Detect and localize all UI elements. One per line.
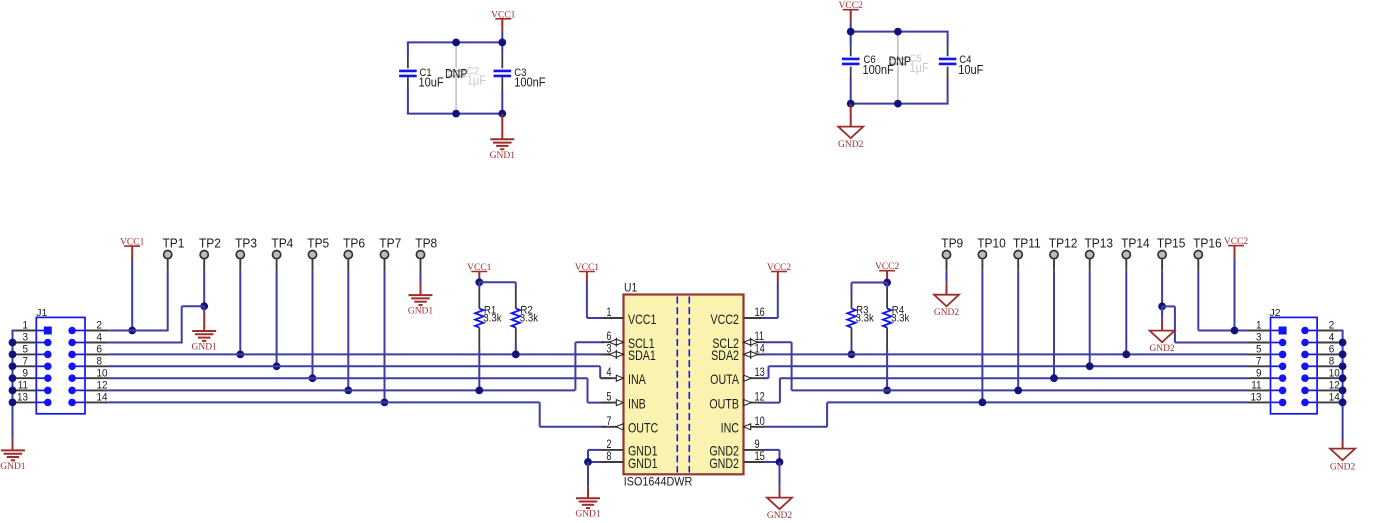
svg-text:ISO1644DWR: ISO1644DWR [624, 476, 692, 488]
svg-text:3.3k: 3.3k [483, 313, 502, 325]
capacitor C3 [494, 70, 512, 73]
pin J1.2 lead [72, 330, 85, 332]
pin J1.1 stub [17, 330, 37, 332]
svg-text:GND2: GND2 [1330, 463, 1356, 473]
wire U1 pin9 to GND2 [763, 449, 780, 451]
wire J1 ground bus [12, 331, 14, 440]
node U1 GND2 pins [776, 458, 784, 466]
node R4/SCL2 [883, 387, 891, 395]
wire J2.6 to ground bus [1338, 353, 1344, 355]
pin TP11 stub [1017, 259, 1019, 271]
node VCC1/row2 [128, 327, 136, 335]
pin J2.2 stub [1317, 330, 1338, 332]
wire R4 to SCL2 row [886, 349, 888, 390]
pin J1.2 stub [85, 330, 108, 332]
svg-text:TP14: TP14 [1121, 236, 1150, 250]
pin J1.11 [44, 387, 52, 395]
pin J2.13 [1279, 399, 1287, 407]
wire into OUTC pin [540, 426, 606, 428]
wire TP2 down to junction [203, 271, 205, 307]
pin J2.14 [1301, 399, 1309, 407]
svg-text:VCC1: VCC1 [628, 312, 657, 328]
node bus J1.3 [9, 339, 17, 347]
svg-text:GND2: GND2 [838, 140, 864, 150]
wire into INA pin [600, 377, 610, 379]
wire VCC2 to pin16 [777, 284, 779, 318]
wire top rail C1-C3 [407, 41, 503, 43]
wire row14 jog down [539, 402, 541, 426]
wire row4 J1.4 [108, 342, 183, 344]
wire TP9 down [946, 271, 948, 283]
pin J1.2 [68, 327, 76, 335]
pin J2.1 stub [1249, 330, 1271, 332]
svg-text:TP9: TP9 [941, 236, 963, 250]
testpoint TP6 [344, 251, 352, 259]
pin J2.11 stub [1249, 389, 1271, 391]
pin J2.9 [1279, 374, 1287, 382]
pin J1.5 [44, 351, 52, 359]
wire row10 (INB net) J1.10 to jog [108, 377, 587, 379]
pin J1.8 [68, 363, 76, 371]
testpoint TP15 [1158, 251, 1166, 259]
pin J2.12 lead [1305, 389, 1317, 391]
wire TP12 down to row10R [1053, 271, 1055, 379]
node U1 GND1 pins [584, 458, 592, 466]
node TP5/row10 [309, 374, 317, 382]
pin TP9 stub [946, 259, 948, 271]
node R2/row6 [512, 351, 520, 359]
svg-text:TP11: TP11 [1013, 236, 1041, 250]
wire INC jog up [826, 402, 828, 426]
ground GND1 (U1) [587, 462, 589, 487]
pin J1.12 stub [85, 389, 108, 391]
pin J2.11 [1279, 387, 1287, 395]
pin J1.11 lead [36, 389, 48, 391]
ground GND2 (U1) [779, 462, 781, 487]
node bus J1.9 [9, 374, 17, 382]
pin TP1 stub [167, 259, 169, 271]
wire J1.7 to ground bus [12, 365, 17, 367]
node bus J1.11 [9, 387, 17, 395]
pin J2.10 stub [1317, 377, 1338, 379]
pin TP6 stub [347, 259, 349, 271]
pin J2.14 lead [1305, 401, 1317, 403]
pin J2.9 lead [1271, 377, 1283, 379]
wire U1 pin15 to GND2 [763, 461, 780, 463]
svg-text:TP3: TP3 [235, 236, 257, 250]
svg-text:INC: INC [721, 420, 740, 436]
node TP10/row14R [979, 399, 987, 407]
svg-text:TP6: TP6 [343, 236, 365, 250]
wire SCL2 from pin11 [763, 341, 792, 343]
testpoint TP11 [1014, 251, 1022, 259]
pin U1.1 (VCC1) stub [602, 317, 624, 319]
pin J1.14 lead [72, 401, 85, 403]
wire J2.2 to ground bus [1338, 330, 1344, 332]
wire OUTB jog up [779, 378, 781, 402]
wire TP2 junction left [182, 305, 205, 307]
node bus J2.14 [1339, 399, 1347, 407]
pin J1.10 [68, 374, 76, 382]
testpoint TP7 [380, 251, 388, 259]
wire J2.14 to ground bus [1338, 401, 1344, 403]
wire TP4 down to row8 [276, 271, 278, 367]
wire row6R (SDA2 net) pin14 to J2.5 [763, 353, 1249, 355]
svg-text:INB: INB [628, 396, 646, 412]
wire TP16 down to row1R [1197, 271, 1199, 331]
wire VCC2 to rail [850, 22, 852, 32]
pin J2.7 lead [1271, 365, 1283, 367]
wire row3R to J2.3 [1175, 342, 1249, 344]
connector J1 [36, 317, 85, 413]
wire C4 branch [947, 32, 949, 46]
wire TP7 down to row14 [384, 271, 386, 403]
pin J2.9 stub [1249, 377, 1271, 379]
pin J2.11 lead [1271, 389, 1283, 391]
svg-text:TP15: TP15 [1157, 236, 1186, 250]
wire row6 (SDA1 net) J1.6 to U1 [108, 353, 613, 355]
svg-text:TP8: TP8 [415, 236, 437, 250]
pin J1.9 stub [17, 377, 37, 379]
svg-text:J1: J1 [36, 307, 47, 319]
pin U1.9 (GND2) stub [744, 449, 766, 451]
pin J1.6 stub [85, 353, 108, 355]
pin TP12 stub [1053, 259, 1055, 271]
svg-text:TP13: TP13 [1085, 236, 1114, 250]
svg-text:VCC2: VCC2 [711, 312, 740, 328]
pin J2.3 stub [1249, 342, 1271, 344]
pin J2.7 stub [1249, 365, 1271, 367]
node TP11/row12R [1014, 387, 1022, 395]
pin TP7 stub [384, 259, 386, 271]
wire row10R (OUTB net) to J2.9 [780, 377, 1249, 379]
svg-text:DNP: DNP [445, 67, 468, 81]
svg-text:GND1: GND1 [490, 151, 516, 161]
pin J2.14 stub [1317, 401, 1338, 403]
pin U1.3 bidirectional arrow [615, 350, 617, 359]
wire VCC2 to R3 [852, 282, 888, 284]
pin U1.8 (GND1) stub [602, 461, 624, 463]
pin J2.4 stub [1317, 342, 1338, 344]
wire TP15 down to junction [1161, 271, 1163, 307]
pin J2.2 [1301, 327, 1309, 335]
op-amp U1 body (ISO1644DWR) [624, 295, 744, 475]
pin TP14 stub [1125, 259, 1127, 271]
pin J1.4 lead [72, 342, 85, 344]
svg-text:3.3k: 3.3k [856, 313, 875, 325]
pin J1.6 [68, 351, 76, 359]
node VCC2/row1R [1231, 327, 1239, 335]
pin U1.4 (INA) stub [602, 377, 624, 379]
svg-text:3.3k: 3.3k [520, 313, 539, 325]
node bottom rail C3/GND1 [498, 110, 506, 118]
node TP3/row6 [236, 351, 244, 359]
wire VCC1 to pin1 [586, 282, 588, 319]
pin U1.12 output arrow [744, 400, 751, 406]
node R3/SDA2 [848, 351, 856, 359]
wire row1R to J2.1 [1198, 330, 1248, 332]
pin J1.3 stub [17, 342, 37, 344]
svg-text:1µF: 1µF [467, 73, 486, 88]
node bottom rail C2 [452, 110, 460, 118]
svg-text:INA: INA [628, 372, 647, 388]
wire SCL2 jog down [791, 342, 793, 390]
pin J1.7 stub [17, 365, 37, 367]
wire OUTA from pin13 [763, 377, 769, 379]
wire TP8 down [420, 271, 422, 284]
node bottom rail C5 [894, 100, 902, 108]
wire TP10 down to row14R [981, 271, 983, 403]
node bus J1.7 [9, 362, 17, 370]
wire J1.1 to ground bus [12, 330, 17, 332]
pin J2.5 [1279, 351, 1287, 359]
resistor R1 [478, 282, 480, 288]
node bus J2.10 [1339, 374, 1347, 382]
pin J1.1 lead [36, 330, 48, 332]
node bus J2.8 [1339, 362, 1347, 370]
wire J1.11 to ground bus [12, 389, 17, 391]
node top rail C5 [894, 28, 902, 36]
svg-text:TP12: TP12 [1049, 236, 1078, 250]
testpoint TP3 [236, 251, 244, 259]
pin J2.1 (square) [1279, 327, 1287, 335]
wire VCC1 to rail [501, 32, 503, 43]
testpoint TP12 [1050, 251, 1058, 259]
pin J2.12 [1301, 387, 1309, 395]
testpoint TP9 [942, 251, 950, 259]
pin J2.13 lead [1271, 401, 1283, 403]
pin U1.12 (OUTB) stub [744, 402, 766, 404]
wire down to row4 [181, 306, 183, 343]
pin J2.3 lead [1271, 342, 1283, 344]
wire TP5 down to row10 [312, 271, 314, 379]
pin U1.5 (INB) stub [602, 402, 624, 404]
pin J2.10 [1301, 374, 1309, 382]
node TP7/row14 [381, 399, 389, 407]
svg-text:OUTC: OUTC [628, 420, 658, 436]
pin J2.2 lead [1305, 330, 1317, 332]
capacitor C4 [939, 58, 957, 61]
node R1/row12 [475, 387, 483, 395]
node TP12/row10R [1050, 374, 1058, 382]
wire R2 to row6 [515, 344, 517, 354]
pin J1.3 lead [36, 342, 48, 344]
pin U1.10 input arrow [744, 424, 751, 430]
svg-text:1µF: 1µF [909, 60, 928, 75]
pin J1.12 [68, 387, 76, 395]
node VCC1/R1/R2 [475, 278, 483, 286]
svg-text:OUTA: OUTA [710, 372, 740, 388]
pin J2.6 lead [1305, 353, 1317, 355]
pin TP16 stub [1197, 259, 1199, 271]
svg-text:TP5: TP5 [307, 236, 329, 250]
resistor R4 [886, 283, 888, 289]
pin J1.3 [44, 339, 52, 347]
pin TP3 stub [239, 259, 241, 271]
wire J2 ground bus [1342, 331, 1344, 441]
capacitor C6 [842, 58, 860, 61]
wire bottom rail C1-C3 [407, 113, 503, 115]
wire C6 branch [850, 32, 852, 46]
svg-text:GND1: GND1 [0, 462, 26, 472]
testpoint TP13 [1086, 251, 1094, 259]
svg-text:GND1: GND1 [628, 456, 658, 472]
ground GND1 (J1 bus) [12, 439, 14, 449]
svg-text:GND2: GND2 [1149, 344, 1175, 354]
svg-text:3.3k: 3.3k [891, 313, 910, 325]
wire down to row3R [1174, 306, 1176, 342]
wire row12R (SCL2 net) to J2.11 [792, 389, 1249, 391]
wire TP11 down to row12R [1017, 271, 1019, 391]
wire INC from pin10 [763, 426, 827, 428]
ground GND2 (J2 bus) [1342, 440, 1344, 449]
wire row2 J1.2-TP1 [108, 330, 168, 332]
node top rail C6/VCC2 [847, 28, 855, 36]
testpoint TP16 [1194, 251, 1202, 259]
ground GND2 (TP15) [1161, 306, 1163, 318]
wire row12 jog up [574, 342, 576, 390]
wire row8R (OUTA net) to J2.7 [769, 365, 1249, 367]
pin J2.3 [1279, 339, 1287, 347]
pin J1.14 [68, 399, 76, 407]
pin U1.6 (SCL1) stub [602, 341, 624, 343]
svg-text:TP7: TP7 [379, 236, 401, 250]
pin J2.8 stub [1317, 365, 1338, 367]
node TP6/row12 [344, 387, 352, 395]
wire R3 to SDA2 row [851, 344, 853, 354]
pin TP15 stub [1161, 259, 1163, 271]
wire row14 (OUTC net) J1.14 to jog [108, 401, 540, 403]
pin TP5 stub [312, 259, 314, 271]
wire into SCL1 pin [575, 341, 604, 343]
pin TP4 stub [276, 259, 278, 271]
pin J2.7 [1279, 363, 1287, 371]
testpoint TP1 [164, 251, 172, 259]
svg-text:U1: U1 [624, 282, 637, 295]
pin J2.5 stub [1249, 353, 1271, 355]
svg-text:1: 1 [606, 307, 611, 319]
svg-text:4: 4 [606, 367, 611, 379]
pin J1.8 stub [85, 365, 108, 367]
wire R1 to row12 [478, 349, 480, 390]
svg-text:J2: J2 [1270, 307, 1281, 319]
svg-text:TP1: TP1 [162, 236, 184, 250]
pin J1.14 stub [85, 401, 108, 403]
node top rail C2 [452, 39, 460, 47]
pin J2.10 lead [1305, 377, 1317, 379]
pin J1.13 [44, 399, 52, 407]
pin TP2 stub [203, 259, 205, 271]
pin J1.9 [44, 374, 52, 382]
svg-text:TP16: TP16 [1193, 236, 1222, 250]
ground GND1 (top-left cap group) [501, 114, 503, 139]
pin J1.5 lead [36, 353, 48, 355]
svg-text:DNP: DNP [889, 55, 912, 69]
svg-text:TP2: TP2 [199, 236, 221, 250]
pin J1.10 lead [72, 377, 85, 379]
wire J1.9 to ground bus [12, 377, 17, 379]
pin U1.6 bidirectional arrow [615, 338, 617, 347]
pin J1.13 lead [36, 401, 48, 403]
wire VCC1 to R2 [479, 281, 516, 283]
testpoint TP2 [200, 251, 208, 259]
svg-text:SDA2: SDA2 [711, 348, 739, 364]
svg-text:10uF: 10uF [418, 75, 443, 90]
node bus J1.5 [9, 351, 17, 359]
pin U1.2 (GND1) stub [602, 449, 624, 451]
pin J1.9 lead [36, 377, 48, 379]
capacitor C2 (DNP) [455, 42, 457, 68]
pin J2.6 [1301, 351, 1309, 359]
pin U1.14 (SDA2) stub [744, 353, 766, 355]
svg-text:GND2: GND2 [934, 308, 960, 318]
pin J2.4 lead [1305, 342, 1317, 344]
pin J1.4 [68, 339, 76, 347]
pin U1.14 bidirectional arrow [750, 350, 752, 359]
wire C1 branch [407, 42, 409, 58]
resistor R3 [851, 283, 853, 296]
testpoint TP5 [308, 251, 316, 259]
pin U1.3 (SDA1) stub [602, 353, 624, 355]
svg-text:TP4: TP4 [271, 236, 293, 250]
wire VCC1 down to row2 [131, 260, 133, 331]
pin J2.5 lead [1271, 353, 1283, 355]
wire J1.5 to ground bus [12, 353, 17, 355]
wire J1.13 to ground bus [12, 401, 17, 403]
wire J2.8 to ground bus [1338, 365, 1344, 367]
pin J2.8 lead [1305, 365, 1317, 367]
svg-text:GND1: GND1 [408, 307, 434, 317]
pin J1.4 stub [85, 342, 108, 344]
node bus J2.12 [1339, 387, 1347, 395]
wire bottom rail C6-C4 [850, 103, 949, 105]
wire row8 (INA net) J1.8 to jog [108, 365, 600, 367]
wire OUTB from pin12 [763, 402, 780, 404]
pin J2.12 stub [1317, 389, 1338, 391]
wire VCC2 down to row1R [1234, 258, 1236, 330]
pin TP8 stub [420, 259, 422, 271]
wire TP6 down to row12 [347, 271, 349, 391]
pin J1.11 stub [17, 389, 37, 391]
pin J2.6 stub [1317, 353, 1338, 355]
pin J2.1 lead [1271, 330, 1283, 332]
testpoint TP8 [416, 251, 424, 259]
svg-text:OUTB: OUTB [709, 396, 739, 412]
testpoint TP14 [1122, 251, 1130, 259]
ground GND1 (TP2) [203, 306, 205, 311]
wire TP14 down to row6R [1125, 271, 1127, 355]
node TP2/GND1/row4 [200, 302, 208, 310]
svg-text:GND2: GND2 [709, 456, 739, 472]
pin U1.13 output arrow [744, 375, 751, 381]
wire row10 jog down [587, 378, 589, 402]
pin J1.10 stub [85, 377, 108, 379]
pin U1.16 (VCC2) stub [744, 317, 766, 319]
pin J1.7 [44, 363, 52, 371]
svg-text:8: 8 [606, 451, 611, 463]
pin J1.8 lead [72, 365, 85, 367]
node bus J2.6 [1339, 351, 1347, 359]
wire J2.12 to ground bus [1338, 389, 1344, 391]
pin J1.1 (square) [44, 327, 52, 335]
pin J1.7 lead [36, 365, 48, 367]
capacitor C1 [399, 70, 417, 73]
pin J1.5 stub [17, 353, 37, 355]
wire TP1 down to row2 [167, 271, 169, 332]
node VCC2/R3/R4 [883, 279, 891, 287]
wire top rail C6-C4 [851, 31, 949, 33]
svg-text:2: 2 [606, 439, 611, 451]
